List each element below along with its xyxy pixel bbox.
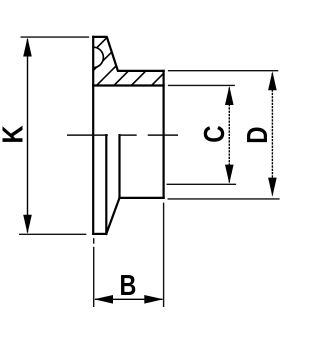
svg-text:D: D: [241, 126, 273, 143]
svg-text:C: C: [198, 125, 230, 142]
svg-text:B: B: [119, 269, 136, 302]
svg-text:K: K: [0, 125, 29, 144]
